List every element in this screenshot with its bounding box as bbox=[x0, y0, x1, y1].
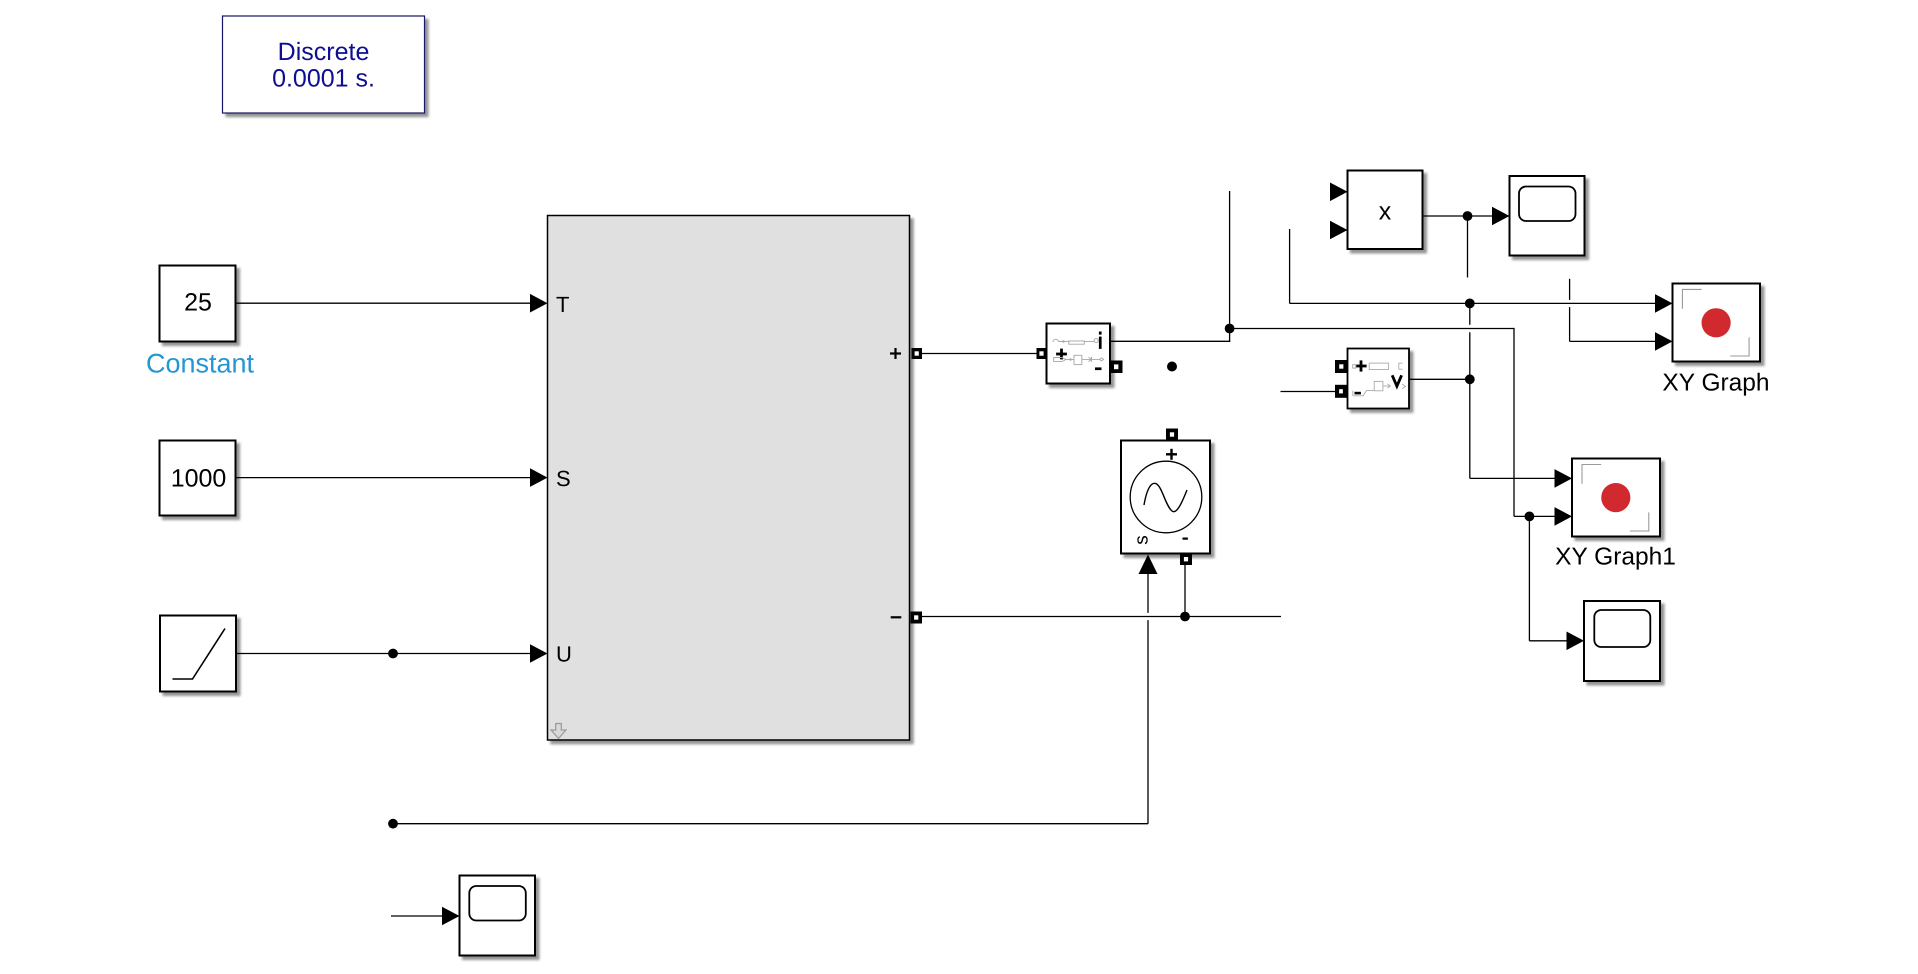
Constant block (25) bbox=[160, 266, 236, 342]
svg-text:x: x bbox=[1379, 198, 1392, 226]
AC top port bbox=[1166, 429, 1178, 441]
isolated node dot right of current measurement bbox=[1167, 362, 1177, 372]
gray down arrow inside subsystem bbox=[551, 724, 566, 739]
Scope block right bbox=[1584, 601, 1660, 681]
wire: vertical dangling line above i output bbox=[1229, 191, 1231, 342]
wire: horizontal into XY Graph input 2 bbox=[1570, 340, 1656, 342]
AC bottom right port bbox=[1180, 554, 1192, 566]
Scope block bottom left bbox=[460, 876, 536, 956]
wire: minus output of subsystem bbox=[922, 616, 1281, 618]
voltage measurement plus port bbox=[1335, 360, 1348, 373]
svg-text:0.0001 s.: 0.0001 s. bbox=[272, 65, 375, 93]
sine wave bbox=[1144, 483, 1187, 511]
svg-text:Constant: Constant bbox=[146, 349, 255, 379]
wire: horizontal into Scope2 bbox=[1529, 640, 1567, 642]
svg-text:25: 25 bbox=[184, 289, 212, 317]
minus label bbox=[1095, 367, 1102, 370]
wire: short wire into Scope3 bbox=[391, 915, 444, 917]
svg-text:XY Graph1: XY Graph1 bbox=[1555, 544, 1676, 571]
Current Measurement block bbox=[1047, 324, 1111, 384]
wire: vertical from junction down to Scope2 bbox=[1528, 516, 1530, 640]
Ramp block bbox=[160, 616, 236, 692]
gray mini schematic bbox=[1353, 363, 1406, 396]
current measurement plus port bbox=[1037, 348, 1047, 359]
multiplier input arrow 1 bbox=[1330, 183, 1348, 202]
plus label bbox=[1166, 453, 1177, 455]
wire: vertical from bus junction down to XY Graph1 input 1 (gap at crossing) bbox=[1469, 303, 1471, 324]
svg-text:S: S bbox=[556, 466, 571, 491]
sine circle bbox=[1130, 461, 1202, 533]
wire: Ramp to port U bbox=[236, 653, 531, 655]
Constant block (1000) bbox=[160, 441, 236, 516]
minus label bbox=[1355, 392, 1361, 395]
wire: vertical from AC source s arrow down (gap at crossing) bbox=[1147, 574, 1149, 613]
XY Graph block bbox=[1673, 284, 1761, 362]
junction on U wire bbox=[388, 649, 398, 659]
i label bbox=[1099, 332, 1102, 335]
powergui Discrete block bbox=[223, 16, 425, 113]
wire: dangling L wire vertical bbox=[1289, 229, 1291, 303]
plus label bbox=[1056, 353, 1067, 356]
plus output label bbox=[890, 352, 901, 354]
svg-text:XY Graph: XY Graph bbox=[1662, 370, 1769, 397]
wire: i output of current measurement bbox=[1110, 340, 1230, 342]
junction at voltage measurement output bbox=[1465, 374, 1475, 384]
v letter bbox=[1392, 375, 1401, 386]
svg-text:U: U bbox=[556, 642, 572, 667]
current measurement output port bbox=[1110, 361, 1123, 374]
XY Graph1 block bbox=[1572, 459, 1660, 537]
wire: vertical from AC source minus port bbox=[1184, 565, 1186, 617]
wire: plus output of subsystem to current measurement bbox=[922, 353, 1037, 355]
wire: dangling vertical below multiplier output junction bbox=[1467, 216, 1469, 278]
wire: Constant 25 to port T bbox=[236, 302, 531, 304]
plus label bbox=[1355, 365, 1366, 368]
AC controlled voltage source block bbox=[1121, 441, 1210, 554]
gray mini schematic top row bbox=[1053, 339, 1098, 345]
wire: short horizontal to XY Graph1 input 2 bbox=[1514, 515, 1555, 517]
wire: voltage measurement output bbox=[1409, 378, 1470, 380]
junction under AC source minus bbox=[1180, 612, 1190, 622]
wire: vertical down toward XY Graph1 input 2 bbox=[1513, 328, 1515, 517]
red circle icon bbox=[1601, 483, 1630, 512]
multiplier input arrow 2 bbox=[1330, 221, 1348, 240]
wire: long horizontal feedback bbox=[393, 823, 1148, 825]
minus output label bbox=[891, 616, 902, 618]
Scope block top bbox=[1510, 176, 1585, 256]
wire: vertical into XY Graph input 2 (gap at bus crossing) bbox=[1569, 279, 1571, 300]
wire: Constant 1000 to port S bbox=[236, 477, 531, 479]
svg-text:Discrete: Discrete bbox=[278, 38, 370, 66]
svg-text:1000: 1000 bbox=[171, 465, 227, 493]
wire: dangling into voltage measurement minus port bbox=[1281, 391, 1336, 393]
large subsystem block bbox=[548, 216, 910, 741]
Product (multiplier) block bbox=[1348, 171, 1423, 250]
s input up arrow bbox=[1139, 555, 1158, 575]
junction before XY Graph1 input 2 bbox=[1525, 512, 1535, 522]
plus output port square bbox=[912, 348, 923, 359]
voltage measurement minus port bbox=[1335, 385, 1347, 398]
svg-text:T: T bbox=[556, 292, 569, 317]
wire: multiplier output to Scope bbox=[1423, 215, 1493, 217]
wire: horizontal bus to XY Graph input 1 bbox=[1290, 302, 1656, 304]
minus label bbox=[1183, 538, 1188, 540]
junction on XY bus bbox=[1465, 299, 1475, 309]
Voltage Measurement block bbox=[1348, 349, 1410, 409]
svg-text:s: s bbox=[1132, 535, 1153, 545]
gray mini schematic bottom row bbox=[1054, 355, 1104, 364]
wire: horizontal into XY Graph1 input 1 bbox=[1470, 477, 1555, 479]
dot at left end of feedback wire bbox=[388, 819, 398, 829]
minus output port square bbox=[911, 612, 923, 624]
wire: horizontal from i branch to right bbox=[1230, 328, 1514, 330]
junction at i output branch bbox=[1225, 324, 1235, 334]
red circle icon bbox=[1702, 308, 1731, 337]
